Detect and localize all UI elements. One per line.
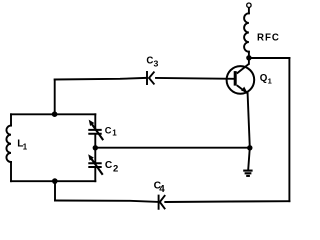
capacitor C3 [147, 72, 154, 84]
inductor RFC [244, 13, 249, 51]
wire tank right vertical upper [94, 114, 96, 128]
svg-text:RFC: RFC [257, 32, 280, 43]
node dot junction tank-top [52, 111, 58, 117]
transistor Q1 body [227, 66, 255, 94]
terminal circle RFC top [247, 3, 251, 7]
wire bottom left segment [55, 201, 158, 202]
wire bottom right segment [165, 200, 289, 203]
node dot junction tank-bottom [52, 178, 58, 184]
wire tank bottom horizontal [11, 180, 95, 182]
capacitor C1 plates [89, 130, 100, 134]
wire right vertical [288, 58, 290, 201]
capacitor C4 [159, 196, 165, 209]
svg-text:3: 3 [154, 58, 159, 68]
svg-text:1: 1 [23, 142, 28, 151]
wire tank right vertical lower [94, 168, 96, 181]
transistor Q1 emitter diagonal [237, 85, 248, 93]
wire base right segment [156, 77, 234, 80]
svg-text:4: 4 [159, 184, 165, 195]
wire tank top horizontal [11, 113, 95, 115]
capacitor C2 arrow shaft [91, 158, 102, 174]
wire RFC to collector node [248, 52, 250, 64]
transistor Q1 emitter arrowhead [241, 87, 247, 93]
svg-text:C: C [105, 160, 113, 171]
wire feedback vertical down-left [54, 181, 56, 200]
wire RFC terminal stub [248, 8, 250, 13]
wire emitter horizontal [95, 147, 250, 149]
wire tank left vertical lower [10, 162, 12, 181]
capacitor C1 arrowhead [89, 120, 95, 126]
svg-text:C: C [105, 125, 112, 135]
node dot emitter [247, 145, 252, 150]
capacitor C2 plates [89, 163, 100, 167]
ground lead [248, 148, 250, 170]
svg-text:Q: Q [260, 73, 268, 84]
capacitor C1 arrow shaft [92, 124, 103, 140]
transistor Q1 collector diagonal [237, 64, 249, 74]
svg-text:1: 1 [268, 77, 272, 86]
wire base left segment [55, 78, 146, 80]
svg-text:1: 1 [112, 128, 117, 137]
wire collector top [249, 57, 290, 59]
node dot junction C1-C2 [93, 145, 98, 150]
svg-text:C: C [146, 55, 153, 66]
svg-text:2: 2 [113, 164, 118, 175]
node dot collector [246, 55, 251, 60]
wire emitter vertical [248, 93, 250, 147]
inductor L1 [6, 126, 11, 162]
ground symbol [243, 171, 252, 176]
wire tank right vertical middle [94, 135, 96, 162]
wire vertical from base wire to tank top [54, 80, 56, 115]
capacitor C2 arrowhead [88, 154, 94, 160]
transistor Q1 base bar [234, 71, 237, 86]
wire tank left vertical upper [10, 114, 12, 125]
